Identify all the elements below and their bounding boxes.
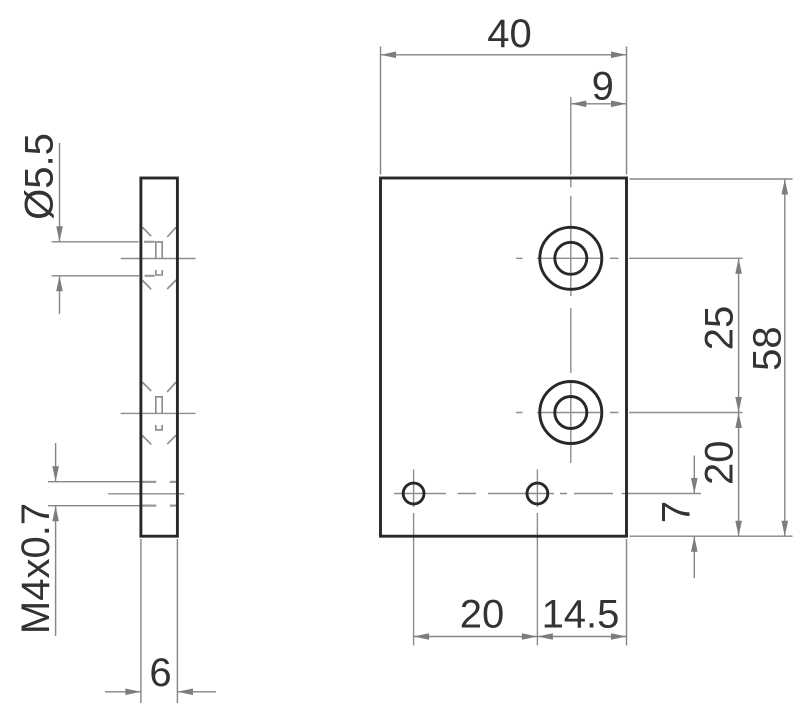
svg-text:9: 9 bbox=[592, 65, 614, 109]
svg-text:M4x0.7: M4x0.7 bbox=[14, 503, 58, 634]
svg-text:58: 58 bbox=[745, 326, 789, 371]
svg-text:14.5: 14.5 bbox=[542, 593, 620, 637]
svg-text:6: 6 bbox=[149, 651, 171, 695]
svg-text:25: 25 bbox=[698, 306, 742, 351]
svg-text:20: 20 bbox=[460, 593, 505, 637]
svg-text:7: 7 bbox=[655, 501, 699, 523]
svg-text:20: 20 bbox=[698, 441, 742, 486]
svg-text:40: 40 bbox=[487, 12, 532, 56]
svg-text:Ø5.5: Ø5.5 bbox=[18, 133, 62, 220]
